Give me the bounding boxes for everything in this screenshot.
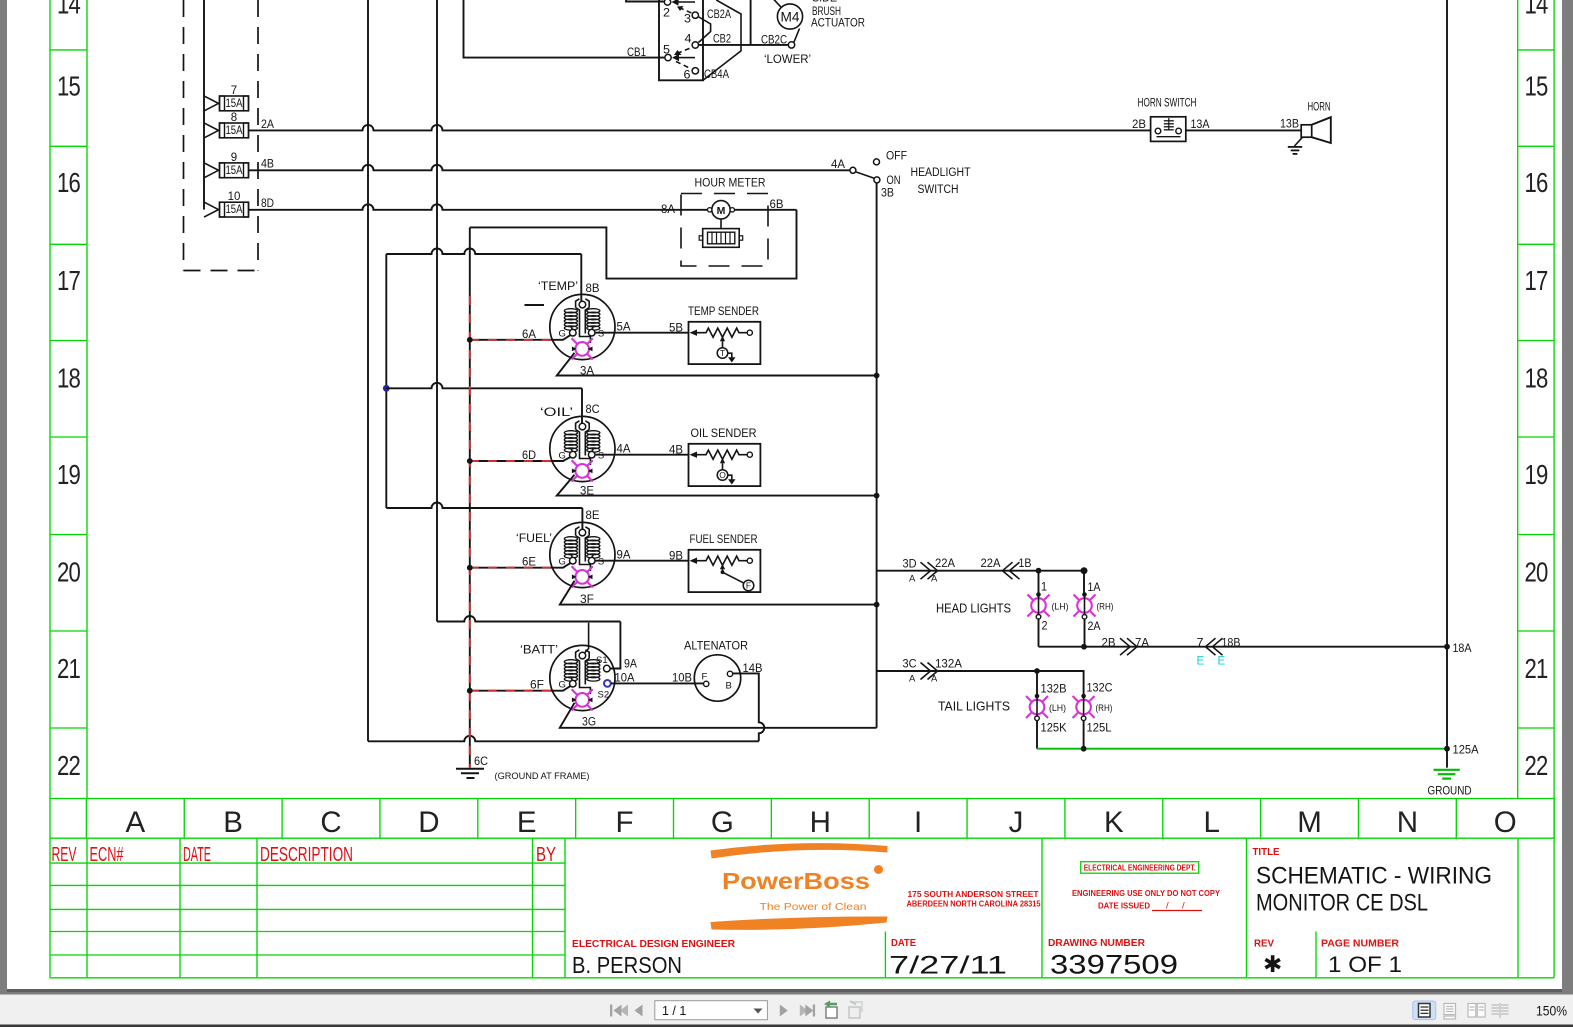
wire 6B return loop to ground bus xyxy=(470,210,797,279)
svg-text:ALTENATOR: ALTENATOR xyxy=(684,639,748,653)
svg-text:OIL SENDER: OIL SENDER xyxy=(691,426,757,440)
svg-text:M: M xyxy=(717,205,726,217)
svg-text:‘BATT’: ‘BATT’ xyxy=(520,643,558,657)
lamp tail light LH xyxy=(1026,694,1048,721)
wire CB1 xyxy=(464,0,665,58)
svg-text:15: 15 xyxy=(1525,70,1549,101)
svg-text:I: I xyxy=(914,806,922,839)
svg-text:4: 4 xyxy=(685,34,693,46)
svg-text:A: A xyxy=(909,674,916,685)
svg-text:B: B xyxy=(223,806,243,839)
junction node 125A xyxy=(1444,746,1450,752)
svg-text:ELECTRICAL ENGINEERING DEPT.: ELECTRICAL ENGINEERING DEPT. xyxy=(1084,864,1196,873)
svg-text:O: O xyxy=(1494,806,1517,839)
svg-text:132A: 132A xyxy=(935,659,962,671)
svg-text:DATE: DATE xyxy=(183,844,211,866)
pdf viewer toolbar xyxy=(0,995,1573,1026)
svg-text:H: H xyxy=(810,806,831,839)
pin 5 xyxy=(663,45,695,62)
svg-text:7: 7 xyxy=(1197,638,1204,650)
svg-text:132B: 132B xyxy=(1041,684,1067,696)
wire 4B (fuse 9 to headlight switch) xyxy=(249,165,851,170)
horn xyxy=(1301,102,1331,144)
svg-text:3E: 3E xyxy=(580,486,594,498)
svg-text:S: S xyxy=(598,329,604,340)
svg-text:5A: 5A xyxy=(617,322,631,334)
ground at frame xyxy=(456,756,590,782)
wire 6D (gauge ground, red highlighted) xyxy=(467,450,571,464)
svg-text:C: C xyxy=(320,806,341,839)
svg-text:3G: 3G xyxy=(582,717,596,729)
svg-text:1A: 1A xyxy=(1088,582,1101,594)
svg-text:2: 2 xyxy=(663,8,670,20)
svg-text:17: 17 xyxy=(57,265,80,296)
PowerBoss logo xyxy=(711,843,888,930)
svg-text:17: 17 xyxy=(1525,265,1548,296)
svg-text:4A: 4A xyxy=(831,159,845,171)
svg-text:10A: 10A xyxy=(615,673,635,685)
svg-text:2B: 2B xyxy=(1132,119,1146,131)
wire to connector pin 1 xyxy=(626,0,664,2)
wire 22A head light feed xyxy=(877,570,1084,572)
pin 4 xyxy=(674,34,699,56)
column letters xyxy=(125,806,1516,839)
svg-text:8: 8 xyxy=(231,112,237,124)
svg-text:6C: 6C xyxy=(474,756,488,768)
fuse F9 15A xyxy=(204,152,249,178)
terminal CB2C xyxy=(788,42,794,48)
wire 125A tail light return (green) xyxy=(1037,748,1447,750)
svg-text:(GROUND AT FRAME): (GROUND AT FRAME) xyxy=(495,771,590,782)
svg-text:4B: 4B xyxy=(669,445,683,457)
svg-text:7: 7 xyxy=(231,85,237,97)
svg-text:(LH): (LH) xyxy=(1052,602,1069,613)
wire 9A fuel xyxy=(595,560,689,562)
row numbers xyxy=(57,0,1548,781)
fuse panel dashed enclosure xyxy=(184,0,259,271)
svg-text:FUEL SENDER: FUEL SENDER xyxy=(690,532,758,546)
fuse F10 15A xyxy=(204,191,249,217)
connector wedge outline xyxy=(703,0,741,80)
svg-text:O: O xyxy=(719,470,726,480)
wire 6A (gauge ground, red highlighted) xyxy=(467,329,571,343)
wire 8D (fuse 10 to hour meter) xyxy=(249,204,710,210)
svg-text:‘LOWER’: ‘LOWER’ xyxy=(764,54,811,66)
wire 3G xyxy=(560,703,877,728)
hour meter dashed box xyxy=(681,194,768,267)
svg-text:1 / 1: 1 / 1 xyxy=(662,1004,686,1018)
motor M4 brush actuator xyxy=(773,0,803,43)
fuel sender xyxy=(689,532,761,592)
wire 14B battery bus vertical xyxy=(367,0,369,741)
svg-text:REV: REV xyxy=(52,844,77,866)
svg-text:8D: 8D xyxy=(261,198,274,210)
svg-text:L: L xyxy=(1203,806,1219,839)
svg-text:5: 5 xyxy=(663,45,670,57)
svg-text:TEMP SENDER: TEMP SENDER xyxy=(688,304,759,318)
svg-text:G: G xyxy=(559,557,566,568)
svg-text:S2: S2 xyxy=(598,690,610,701)
svg-text:2: 2 xyxy=(1042,621,1048,633)
svg-text:G: G xyxy=(559,680,566,691)
svg-text:21: 21 xyxy=(57,653,80,684)
wire 6B xyxy=(735,209,797,211)
svg-text:CB4A: CB4A xyxy=(704,69,729,81)
svg-text:3B: 3B xyxy=(881,188,894,200)
svg-text:15A: 15A xyxy=(226,165,243,177)
temp sender xyxy=(688,304,760,364)
svg-text:3A: 3A xyxy=(580,366,594,378)
svg-text:6: 6 xyxy=(684,70,691,82)
svg-text:6B: 6B xyxy=(770,199,784,211)
svg-text:A: A xyxy=(125,806,145,839)
svg-text:TAIL LIGHTS: TAIL LIGHTS xyxy=(938,700,1010,714)
svg-text:5B: 5B xyxy=(669,323,683,335)
gauge OIL xyxy=(550,416,615,481)
svg-text:22: 22 xyxy=(57,750,80,781)
hour meter counter register xyxy=(699,219,743,247)
junction node 1 (LH headlight tap) xyxy=(1036,568,1042,574)
svg-text:/: / xyxy=(1166,901,1169,912)
wire 2B/7A/18B head light return xyxy=(1039,646,1448,648)
connector CB body xyxy=(659,0,703,80)
svg-text:125A: 125A xyxy=(1453,745,1479,757)
svg-text:6A: 6A xyxy=(522,329,536,341)
oil sender xyxy=(689,426,761,486)
svg-text:HORN SWITCH: HORN SWITCH xyxy=(1138,98,1197,110)
ground drop wire xyxy=(1446,0,1448,768)
svg-text:132C: 132C xyxy=(1087,683,1113,695)
svg-text:(RH): (RH) xyxy=(1097,602,1114,613)
pin 6 xyxy=(676,62,699,82)
svg-text:7/27/11: 7/27/11 xyxy=(889,952,1007,980)
wire 14B bottom run to alternator B xyxy=(368,736,759,742)
svg-text:/: / xyxy=(1182,901,1185,912)
svg-text:18: 18 xyxy=(1525,362,1549,393)
wire stub into CB2 run xyxy=(750,0,752,45)
svg-text:S: S xyxy=(598,451,604,462)
hour meter motor M xyxy=(708,201,735,219)
svg-text:125K: 125K xyxy=(1041,723,1067,735)
lamp head light RH xyxy=(1074,592,1096,619)
fuse F7 15A xyxy=(204,85,249,111)
svg-text:A: A xyxy=(931,674,938,685)
svg-text:1: 1 xyxy=(1041,582,1047,594)
wire 13A to horn xyxy=(1186,129,1301,131)
svg-text:13A: 13A xyxy=(1191,119,1210,131)
chassis ground (green) xyxy=(1434,770,1460,779)
connector A-A (3C/132A) xyxy=(921,663,931,680)
junction node (blue) xyxy=(383,385,390,392)
wire 8B xyxy=(386,249,581,254)
svg-text:6F: 6F xyxy=(530,680,544,692)
svg-text:18B: 18B xyxy=(1222,638,1241,650)
wire 3A xyxy=(557,353,877,376)
svg-text:7A: 7A xyxy=(1135,638,1149,650)
wire 9A vertical from top xyxy=(436,0,438,622)
svg-text:M4: M4 xyxy=(781,10,800,25)
head light RH drop xyxy=(1083,571,1085,596)
wire 2A (fuse 8 to horn switch) xyxy=(249,125,1151,130)
horn ground xyxy=(1288,137,1303,154)
svg-text:9: 9 xyxy=(231,152,237,164)
svg-text:T: T xyxy=(720,348,725,358)
svg-text:DATE ISSUED: DATE ISSUED xyxy=(1098,901,1150,911)
svg-text:19: 19 xyxy=(1525,459,1548,490)
fuse supply bus wire xyxy=(203,0,205,210)
engineering dept stamp xyxy=(1081,862,1199,874)
pin 1 xyxy=(664,0,695,6)
svg-text:15A: 15A xyxy=(226,125,243,137)
tail light LH drop xyxy=(1036,671,1038,698)
svg-text:8C: 8C xyxy=(586,404,600,416)
svg-text:10B: 10B xyxy=(672,673,692,685)
svg-text:8E: 8E xyxy=(586,510,600,522)
svg-text:F: F xyxy=(616,806,634,839)
terminal S2 (blue) xyxy=(604,680,611,687)
svg-text:ENGINEERING USE ONLY DO NOT CO: ENGINEERING USE ONLY DO NOT COPY xyxy=(1072,888,1220,898)
wire 3E xyxy=(557,475,877,496)
lighting bus vertical 3B xyxy=(876,183,878,728)
svg-text:B: B xyxy=(726,681,732,692)
svg-text:2A: 2A xyxy=(261,119,274,131)
svg-text:CB2: CB2 xyxy=(713,34,731,46)
terminal S1 xyxy=(604,665,611,672)
junction node 3F on lighting bus xyxy=(874,602,880,608)
wire 6E (gauge ground, red highlighted) xyxy=(467,557,571,571)
wire from BATT top terminal xyxy=(585,623,589,653)
svg-text:S: S xyxy=(598,557,604,568)
tick mark xyxy=(525,304,545,306)
svg-text:150%: 150% xyxy=(1536,1004,1567,1019)
wire 3F xyxy=(560,581,877,605)
wire CB2 to CB2C xyxy=(699,44,789,46)
svg-text:J: J xyxy=(1009,806,1024,839)
connector (22A/1B) xyxy=(1003,562,1013,579)
svg-text:PAGE NUMBER: PAGE NUMBER xyxy=(1321,939,1400,950)
svg-text:4B: 4B xyxy=(261,159,274,171)
horn switch xyxy=(1132,98,1210,142)
junction node 3A on lighting bus xyxy=(874,373,880,379)
svg-text:CB2A: CB2A xyxy=(707,9,731,21)
svg-text:18A: 18A xyxy=(1453,643,1472,655)
junction node 132B tap xyxy=(1034,668,1040,674)
svg-text:HEAD LIGHTS: HEAD LIGHTS xyxy=(936,602,1011,616)
svg-text:16: 16 xyxy=(1525,167,1549,198)
svg-text:BY: BY xyxy=(536,844,556,866)
svg-text:SIDE: SIDE xyxy=(812,0,837,5)
svg-text:E: E xyxy=(517,806,537,839)
svg-text:G: G xyxy=(559,451,566,462)
gauge FUEL xyxy=(550,522,615,587)
svg-text:SWITCH: SWITCH xyxy=(918,184,959,196)
svg-text:‘TEMP’: ‘TEMP’ xyxy=(538,279,578,293)
wire 8E xyxy=(386,503,582,508)
svg-text:14: 14 xyxy=(57,0,81,20)
svg-text:4A: 4A xyxy=(617,444,631,456)
svg-text:20: 20 xyxy=(1525,556,1549,587)
alternator xyxy=(684,639,748,702)
svg-text:18: 18 xyxy=(57,362,81,393)
svg-text:19: 19 xyxy=(57,459,80,490)
svg-text:3F: 3F xyxy=(580,594,594,606)
svg-text:PowerBoss: PowerBoss xyxy=(722,868,870,894)
svg-text:20: 20 xyxy=(57,556,81,587)
svg-text:15A: 15A xyxy=(226,204,243,216)
page layout icons xyxy=(1413,1001,1436,1020)
svg-text:15: 15 xyxy=(57,70,81,101)
svg-text:3397509: 3397509 xyxy=(1050,950,1178,980)
wire 6F (gauge ground, red highlighted) xyxy=(467,680,571,694)
svg-text:F: F xyxy=(746,581,751,591)
svg-text:3D: 3D xyxy=(903,559,917,571)
wire 9A run to BATT S1 xyxy=(437,616,620,622)
svg-text:9A: 9A xyxy=(617,550,631,562)
gauge TEMP xyxy=(550,294,615,359)
svg-text:DRAWING NUMBER: DRAWING NUMBER xyxy=(1048,938,1146,949)
svg-text:CB2C: CB2C xyxy=(761,35,787,47)
svg-text:CB1: CB1 xyxy=(627,47,646,59)
svg-text:2A: 2A xyxy=(1088,621,1101,633)
svg-text:‘FUEL’: ‘FUEL’ xyxy=(516,531,552,545)
junction node 125L/125K xyxy=(1081,746,1087,752)
svg-text:ABERDEEN NORTH CAROLINA 28315: ABERDEEN NORTH CAROLINA 28315 xyxy=(907,899,1041,909)
svg-text:14: 14 xyxy=(1525,0,1549,20)
svg-text:6E: 6E xyxy=(522,557,536,569)
svg-text:8A: 8A xyxy=(661,204,675,216)
junction node 3E on lighting bus xyxy=(874,493,880,499)
svg-text:A: A xyxy=(931,574,938,585)
svg-text:SCHEMATIC - WIRING: SCHEMATIC - WIRING xyxy=(1256,863,1492,890)
svg-text:2B: 2B xyxy=(1102,638,1116,650)
svg-text:ELECTRICAL DESIGN ENGINEER: ELECTRICAL DESIGN ENGINEER xyxy=(572,939,736,950)
svg-text:D: D xyxy=(418,806,439,839)
svg-text:14B: 14B xyxy=(743,663,763,675)
svg-text:22A: 22A xyxy=(981,558,1001,570)
svg-text:8B: 8B xyxy=(586,283,600,295)
svg-text:A: A xyxy=(909,574,916,585)
svg-text:B. PERSON: B. PERSON xyxy=(572,952,682,978)
svg-text:3C: 3C xyxy=(903,659,917,671)
lamp head light LH xyxy=(1028,592,1050,619)
wire 14B from B terminal xyxy=(733,673,765,741)
svg-text:9A: 9A xyxy=(624,659,637,671)
lamp tail light RH xyxy=(1073,694,1095,721)
svg-text:9B: 9B xyxy=(669,551,683,563)
svg-text:ON: ON xyxy=(887,175,901,187)
svg-text:The Power of Clean: The Power of Clean xyxy=(760,901,867,913)
svg-text:(LH): (LH) xyxy=(1049,703,1066,714)
svg-text:175 SOUTH ANDERSON STREET: 175 SOUTH ANDERSON STREET xyxy=(908,889,1040,899)
wire 8C xyxy=(386,383,582,389)
svg-text:S1: S1 xyxy=(596,655,608,666)
svg-text:‘OIL’: ‘OIL’ xyxy=(540,405,573,419)
gauge BATT xyxy=(550,645,615,710)
svg-text:6D: 6D xyxy=(522,450,536,462)
svg-text:M: M xyxy=(1297,806,1322,839)
connector A-A (3D/22A) xyxy=(921,562,931,579)
svg-text:E: E xyxy=(1197,656,1205,668)
svg-text:3: 3 xyxy=(684,14,691,26)
wire 4A xyxy=(595,454,689,456)
svg-text:TITLE: TITLE xyxy=(1253,847,1280,858)
svg-text:125L: 125L xyxy=(1087,723,1113,735)
svg-text:HEADLIGHT: HEADLIGHT xyxy=(911,167,971,179)
svg-text:15A: 15A xyxy=(226,98,243,110)
junction node 2A/2B xyxy=(1081,644,1087,650)
svg-text:G: G xyxy=(711,806,734,839)
svg-text:G: G xyxy=(559,329,566,340)
wire 132A tail light feed xyxy=(877,671,1084,696)
svg-text:22A: 22A xyxy=(935,558,955,570)
junction node 1A (RH headlight tap) xyxy=(1081,567,1088,574)
svg-text:K: K xyxy=(1104,806,1124,839)
svg-text:22: 22 xyxy=(1525,750,1548,781)
svg-text:N: N xyxy=(1397,806,1418,839)
svg-text:21: 21 xyxy=(1525,653,1548,684)
svg-text:(RH): (RH) xyxy=(1096,703,1113,714)
wire 5A xyxy=(595,332,689,334)
svg-text:MONITOR CE DSL: MONITOR CE DSL xyxy=(1256,890,1428,917)
svg-text:ACTUATOR: ACTUATOR xyxy=(811,16,865,30)
node 18A xyxy=(1444,644,1450,650)
pin 3 xyxy=(677,6,699,26)
svg-text:ECN#: ECN# xyxy=(90,844,125,866)
svg-text:✱: ✱ xyxy=(1263,951,1282,977)
headlight switch xyxy=(831,151,971,200)
svg-text:E: E xyxy=(1218,656,1226,668)
wire 10A xyxy=(611,682,703,684)
svg-text:10: 10 xyxy=(228,191,241,203)
svg-text:16: 16 xyxy=(57,167,81,198)
svg-text:1B: 1B xyxy=(1019,558,1032,570)
svg-text:1 OF 1: 1 OF 1 xyxy=(1328,952,1402,977)
svg-text:HOUR METER: HOUR METER xyxy=(695,176,766,190)
connector bracket pins 3-4 xyxy=(698,17,711,43)
svg-text:REV: REV xyxy=(1254,939,1274,950)
wire 8 vertical distribution xyxy=(385,254,387,508)
ground bus 6C (red highlighted) xyxy=(469,227,471,767)
svg-text:HORN: HORN xyxy=(1308,102,1331,114)
svg-text:DATE: DATE xyxy=(891,938,916,949)
svg-text:OFF: OFF xyxy=(886,151,907,163)
head light LH drop xyxy=(1038,571,1040,596)
svg-text:GROUND: GROUND xyxy=(1428,786,1472,798)
svg-text:13B: 13B xyxy=(1280,119,1299,131)
svg-text:DESCRIPTION: DESCRIPTION xyxy=(260,844,353,866)
fuse F8 15A xyxy=(204,112,249,138)
